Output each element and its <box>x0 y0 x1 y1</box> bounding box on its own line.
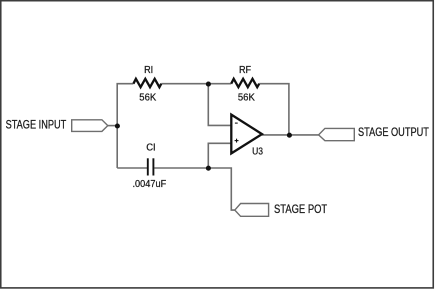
svg-text:STAGE POT: STAGE POT <box>274 203 328 216</box>
wire non-inverting input down to CI rail <box>208 143 231 168</box>
capacitor CI plates <box>148 158 154 175</box>
wire RI right to junction <box>161 83 231 85</box>
stage output flag <box>319 128 355 140</box>
op-amp plus sign <box>235 139 239 143</box>
wire CI rail left segment <box>117 167 147 169</box>
resistor RI <box>133 79 161 87</box>
junction dot output node <box>287 133 292 138</box>
wire op-amp output to stage output flag <box>262 134 319 136</box>
svg-text:56K: 56K <box>139 92 156 103</box>
stage input flag <box>72 120 108 132</box>
wire inverting input from top junction <box>208 84 231 126</box>
svg-text:U3: U3 <box>252 146 263 157</box>
wire top rail input side (node between RI left and left vertical) <box>117 84 133 168</box>
wire stage input tip to node <box>108 125 117 127</box>
op-amp minus sign <box>235 122 238 124</box>
junction dot CI rail <box>206 166 211 171</box>
svg-text:.0047uF: .0047uF <box>133 179 167 190</box>
svg-text:STAGE OUTPUT: STAGE OUTPUT <box>358 127 429 139</box>
wire RF right side down to output node <box>259 84 289 135</box>
junction dot top rail <box>206 82 211 87</box>
wire CI rail right segment to stage pot drop <box>154 168 235 210</box>
svg-text:RF: RF <box>239 65 251 77</box>
stage pot flag <box>235 204 269 217</box>
svg-text:56K: 56K <box>238 92 255 103</box>
svg-text:CI: CI <box>146 142 155 153</box>
svg-text:STAGE INPUT: STAGE INPUT <box>6 120 67 132</box>
op-amp U3 triangle <box>231 115 262 154</box>
resistor RF <box>231 79 259 87</box>
svg-text:RI: RI <box>144 65 153 77</box>
junction dot input node <box>115 123 120 128</box>
